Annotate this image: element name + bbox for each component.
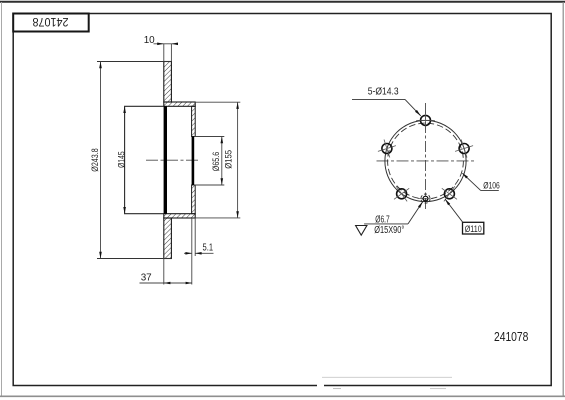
hub rectangle (bell interior) [125, 106, 164, 213]
hat bottom flange [164, 214, 195, 218]
svg-text:Ø145: Ø145 [116, 151, 126, 168]
disc friction ring upper band [164, 62, 172, 103]
disc top edge + extension to dia243.8 dim [97, 61, 171, 63]
label dia106 leader arrow [462, 173, 468, 179]
scan artifact: gap in bottom border [317, 384, 324, 387]
bell wall lower hatched segment [192, 185, 196, 214]
dim 10 left arrow [157, 43, 164, 46]
svg-text:10: 10 [144, 35, 155, 46]
label 5-dia14.3 leader [405, 99, 421, 116]
dia65.6 top arrow [221, 137, 224, 144]
dim 5.1 left extension line [191, 218, 193, 285]
dim 5.1 left arrow [185, 252, 191, 255]
svg-text:Ø15X90°: Ø15X90° [374, 225, 404, 236]
locating hole dia6.7 bold circle [423, 196, 428, 201]
dia155 dimension line [237, 102, 239, 218]
label dia6.7 underline [364, 223, 408, 225]
dim 37 left arrow [164, 282, 171, 285]
circle dia106 dashed [388, 123, 464, 199]
title box top-left [13, 14, 89, 32]
svg-text:Ø106: Ø106 [483, 180, 500, 191]
bell wall upper hatched segment [192, 106, 196, 136]
bolt hole upper-left (162deg) [378, 140, 396, 158]
label 5-dia14.3 underline [352, 98, 405, 100]
locating hole chamfer dia15 dashed circle [421, 194, 430, 203]
dia155 top arrow [236, 102, 239, 109]
label dia106 underline [481, 190, 499, 192]
dim 10 dimension line [154, 43, 178, 45]
locating hole horizontal tick [418, 198, 433, 200]
label dia110 leader [445, 199, 463, 222]
dia145 top arrow [123, 106, 126, 113]
svg-text:Ø110: Ø110 [465, 224, 482, 235]
svg-text:Ø155: Ø155 [223, 150, 233, 169]
dim 5.1 dimension line right piece [195, 252, 213, 254]
scan artifact: faint dashes above bottom border [322, 376, 452, 378]
svg-text:Ø65.6: Ø65.6 [211, 152, 221, 172]
dim 10 left extension line [163, 44, 165, 61]
label dia110 box [463, 222, 484, 234]
bolt hole upper-right (18deg) [455, 140, 473, 158]
dim 37 right arrow [186, 282, 192, 285]
outer frame right edge [562, 2, 564, 397]
dia243.8 bottom arrow [99, 252, 102, 259]
dim 37 left extension line [163, 259, 165, 285]
label dia106 leader [463, 173, 481, 190]
svg-text:5.1: 5.1 [203, 242, 214, 253]
dia65.6 bottom extension line [194, 184, 224, 186]
dim 5.1 dimension line left piece [184, 252, 192, 254]
bolt hole lower-right (306deg) [442, 186, 457, 201]
mounting face thick line [164, 106, 167, 213]
label 5-dia14.3 leader arrow [415, 110, 421, 116]
dia65.6 dimension line [221, 137, 223, 186]
dim 5.1 right arrow [195, 252, 201, 255]
svg-text:241078: 241078 [32, 15, 68, 29]
bolt circle dia110 solid [385, 120, 466, 201]
dia145 bottom arrow [123, 207, 126, 214]
bolt hole top (90deg) [416, 111, 435, 130]
label dia6.7 leader arrow [418, 201, 423, 208]
disc friction ring lower band [164, 218, 172, 259]
dim 5.1 right extension line [194, 218, 196, 256]
dim 10 right extension line [170, 44, 172, 61]
svg-text:37: 37 [141, 273, 152, 284]
outer frame bottom edge [0, 395, 565, 397]
dia243.8 dimension line [100, 62, 102, 259]
dim 37 dimension line [140, 282, 193, 284]
dia155 bottom arrow [236, 211, 239, 218]
dia155 top extension line [195, 101, 240, 103]
horizontal centerline right view [377, 160, 475, 162]
centerline left view [146, 159, 198, 161]
dia243.8 top arrow [99, 62, 102, 69]
svg-text:5-Ø14.3: 5-Ø14.3 [368, 86, 399, 97]
label dia6.7 leader [408, 202, 422, 224]
chamfer symbol triangle [356, 226, 367, 236]
vertical centerline right view [425, 103, 427, 210]
dia155 bottom extension line [195, 217, 240, 219]
dia65.6 bottom arrow [221, 178, 224, 185]
outer frame left edge [1, 2, 3, 397]
disc bottom edge + extension to dia243.8 dim [97, 258, 171, 260]
dia65.6 top extension line [194, 136, 224, 138]
svg-text:241078: 241078 [494, 330, 529, 344]
bolt hole lower-left (234deg) [394, 186, 409, 201]
outer frame top edge [0, 1, 565, 3]
label dia110 leader arrow [445, 199, 450, 205]
svg-text:Ø243.8: Ø243.8 [90, 148, 100, 172]
dim 10 right arrow [171, 43, 178, 46]
hat top flange [164, 102, 195, 106]
center bore thick line on bell wall [192, 137, 195, 186]
